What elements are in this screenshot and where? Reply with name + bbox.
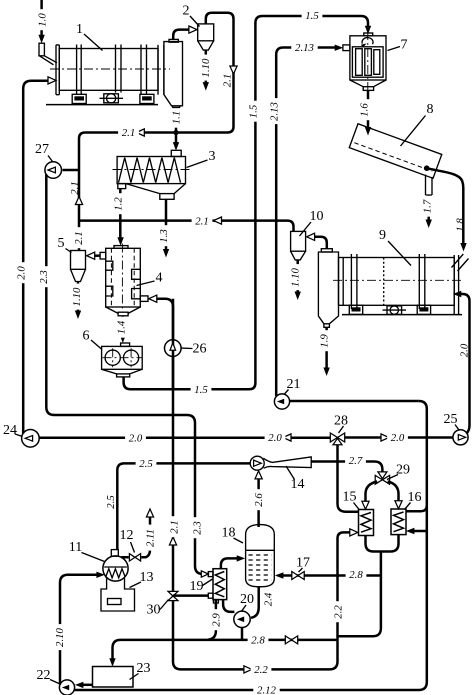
wire 1.10 cyclone 10 outlet xyxy=(288,260,302,300)
wire 1.2 conveyor to apparatus 4 xyxy=(111,189,125,246)
svg-text:1.0: 1.0 xyxy=(36,13,48,27)
svg-text:20: 20 xyxy=(240,592,254,607)
wire 1.6 unit 7 to unit 8 xyxy=(357,90,371,135)
wire tank 23 to pump 22 xyxy=(75,682,93,688)
wire 2.9 unit 19 bottom to header xyxy=(208,600,223,640)
svg-text:2.11: 2.11 xyxy=(145,529,157,547)
svg-text:14: 14 xyxy=(291,477,305,492)
svg-text:2.5: 2.5 xyxy=(139,458,153,470)
svg-text:22: 22 xyxy=(37,668,51,683)
wire HX15 left-side feed from 2.8 riser x=337.5 xyxy=(338,529,358,568)
absorber 11 xyxy=(69,528,135,581)
svg-text:1.4: 1.4 xyxy=(115,320,127,334)
wire right long vertical x=426.8 (2.12 riser) xyxy=(74,401,427,695)
label 28 xyxy=(334,414,348,434)
wire 2.1 vertical x=79 pump27/cyclone5 riser xyxy=(63,133,86,251)
svg-text:1.10: 1.10 xyxy=(200,58,212,77)
svg-text:1.2: 1.2 xyxy=(113,197,125,211)
wire 2.0 header y=437.5 pump24 - valve28 - pump25 xyxy=(39,431,453,445)
svg-text:10: 10 xyxy=(310,209,324,224)
svg-text:15: 15 xyxy=(343,490,357,505)
svg-text:2.4: 2.4 xyxy=(262,592,274,606)
wire pump 21 suction from right vertical xyxy=(290,400,419,403)
valve on 2.8 line xyxy=(285,636,297,644)
svg-text:2.3: 2.3 xyxy=(38,270,50,284)
wire 2.1 from cyclone 2 top down to upper header y=132.5 xyxy=(85,13,237,140)
svg-text:2.1: 2.1 xyxy=(168,520,180,534)
svg-text:27: 27 xyxy=(35,142,49,157)
svg-text:30: 30 xyxy=(147,603,161,618)
svg-text:2.1: 2.1 xyxy=(73,231,85,245)
svg-text:5: 5 xyxy=(58,236,65,251)
heater 13 below absorber 11 xyxy=(101,570,154,611)
wire valve 28 stem and 2.7 line to valve 29 xyxy=(311,444,382,512)
svg-text:1.3: 1.3 xyxy=(158,229,170,243)
svg-text:2.0: 2.0 xyxy=(458,343,470,357)
svg-text:2.3: 2.3 xyxy=(192,521,204,535)
svg-text:24: 24 xyxy=(3,423,17,438)
svg-text:2.8: 2.8 xyxy=(251,635,265,647)
svg-text:2.12: 2.12 xyxy=(257,685,276,695)
wire 1.9 drum 9 hood outlet xyxy=(317,327,331,376)
pump 25 xyxy=(444,412,469,445)
svg-text:1.5: 1.5 xyxy=(194,384,208,396)
wire pump 26 line: 1.5 junction up through pump to apparatus 4 xyxy=(172,299,175,390)
wire apparatus 4 to cyclone 5 xyxy=(87,252,100,259)
pump 26 xyxy=(165,340,207,357)
wire 2.8 valve line y=639.9 from 4-way to x=337.5 xyxy=(173,633,338,647)
svg-text:1.10: 1.10 xyxy=(290,267,302,286)
label 30 xyxy=(147,600,169,618)
apparatus 4 xyxy=(100,244,162,316)
svg-text:1.5: 1.5 xyxy=(248,104,260,118)
pump 21 xyxy=(274,377,300,409)
svg-text:2.1: 2.1 xyxy=(122,127,136,139)
pump 20 xyxy=(234,592,254,628)
wire 2.3: pump 27 discharge down, right at y=415, down central x=195 to unit 19 xyxy=(37,174,209,577)
label 29 xyxy=(387,463,410,480)
svg-text:1.1: 1.1 xyxy=(171,111,183,125)
wire 2.6 vessel 18 to ejector 14 xyxy=(252,471,266,527)
wire HX16 top-right branch y=511.2 xyxy=(406,505,427,511)
svg-text:11: 11 xyxy=(69,540,82,555)
wire 2.4 vessel 18 bottom to pump 20 xyxy=(251,587,274,618)
wire drum 1 hood duct to cyclone 2 xyxy=(173,26,197,39)
svg-text:2.6: 2.6 xyxy=(253,493,265,507)
wire HX bottoms U-merge and stem down xyxy=(338,535,399,637)
wire 2.1 central vertical x=173 from apparatus 4 port down to 2.2 elbow xyxy=(149,295,181,669)
ejector 14 xyxy=(250,456,311,492)
svg-text:2.8: 2.8 xyxy=(349,569,363,581)
svg-text:1.7: 1.7 xyxy=(421,199,433,213)
unit 7 (mixer) xyxy=(343,31,408,91)
unit 6 (roll mill) xyxy=(83,329,143,377)
junction 1.1 x 2.1 xyxy=(173,130,178,135)
svg-text:2.13: 2.13 xyxy=(269,101,281,120)
wire 2.10 pump 22 riser to unit 11 xyxy=(52,572,105,685)
svg-text:2.1: 2.1 xyxy=(222,74,234,88)
wire valve 29 branches to HX15 and HX16 tops xyxy=(362,482,402,510)
svg-text:2.0: 2.0 xyxy=(16,266,28,280)
screw conveyor 3 xyxy=(113,149,216,199)
label 17 xyxy=(296,556,310,573)
wire 1.5 riser and top header into unit 7 xyxy=(246,9,371,383)
wire 1.7 unit 8 spout xyxy=(420,195,434,228)
svg-text:2.0: 2.0 xyxy=(268,432,282,444)
pump 24 xyxy=(3,423,39,447)
wire unit 19 top to vessel 18 xyxy=(221,555,245,569)
wire 2.0 left vertical: drum 1 feed down to pump 24 xyxy=(14,77,56,434)
svg-text:12: 12 xyxy=(120,528,134,543)
svg-text:2.7: 2.7 xyxy=(349,455,363,467)
wire unit 19 bottom to pump 20 xyxy=(223,600,234,612)
valve 28 three-way xyxy=(330,433,344,445)
svg-text:2.0: 2.0 xyxy=(129,433,143,445)
svg-text:2.10: 2.10 xyxy=(54,627,66,646)
svg-text:2.1: 2.1 xyxy=(195,215,209,227)
svg-text:8: 8 xyxy=(427,102,434,117)
cyclone 2 xyxy=(183,4,214,51)
svg-text:3: 3 xyxy=(209,149,216,164)
heat exchanger 15 xyxy=(343,490,374,536)
svg-text:1.9: 1.9 xyxy=(319,334,331,348)
wire 1.10 cyclone 2 dust outlet xyxy=(198,50,212,91)
svg-text:4: 4 xyxy=(156,271,163,286)
wire 2.5 header y=463.4 to ejector 14, branch down to unit 11 xyxy=(105,457,250,550)
drum dryer 1 xyxy=(39,22,170,105)
svg-text:7: 7 xyxy=(401,38,408,53)
vessel 18 xyxy=(222,525,275,587)
wire cyclone 10 inlet duct from drum 9 hood xyxy=(307,233,327,249)
wire 2.0 right: pump 25 riser into drum 9 xyxy=(453,291,471,434)
svg-text:1.5: 1.5 xyxy=(305,10,319,22)
wire pump 20 discharge down xyxy=(241,627,244,640)
unit 8 (inclined dissolver) xyxy=(349,102,441,195)
pump 27 xyxy=(35,142,62,178)
wire 1.4 apparatus 4 to unit 6 xyxy=(114,316,128,343)
drum 1 discharge hood xyxy=(164,39,183,107)
svg-text:29: 29 xyxy=(396,463,410,478)
svg-text:2.13: 2.13 xyxy=(295,42,314,54)
wire 1.3 conveyor discharge xyxy=(156,199,170,257)
svg-text:1.8: 1.8 xyxy=(454,218,466,232)
heat exchanger 19 xyxy=(190,569,227,603)
wire 2.2 line y=669.4 xyxy=(181,663,330,677)
cyclone 10 xyxy=(291,209,324,260)
valve 17 xyxy=(292,572,304,580)
svg-text:2.2: 2.2 xyxy=(254,664,268,676)
wire 2.2 vertical x=337.5 (575.5 junction down to 2.2 elbow) xyxy=(330,568,345,670)
svg-text:2.0: 2.0 xyxy=(391,432,405,444)
wire 1.8 unit 8 tap to drum 9 xyxy=(427,168,467,251)
svg-text:9: 9 xyxy=(379,228,386,243)
wire 1.1 hood outlet to screw 3 xyxy=(169,107,183,151)
svg-text:19: 19 xyxy=(190,579,204,594)
valve 30 xyxy=(168,591,178,600)
pump 22 xyxy=(37,668,75,695)
svg-text:2.1: 2.1 xyxy=(69,181,81,195)
wire 2.13 riser from pump 21 and header into unit 7 xyxy=(267,41,343,397)
svg-text:28: 28 xyxy=(334,414,348,429)
valve 29 three-way xyxy=(375,472,389,484)
svg-text:2.5: 2.5 xyxy=(105,495,117,509)
svg-text:1.6: 1.6 xyxy=(358,103,370,117)
svg-text:26: 26 xyxy=(193,342,207,357)
cyclone 5 xyxy=(58,236,86,319)
svg-text:2: 2 xyxy=(183,4,190,19)
wire 2.11 from valve 12 up xyxy=(121,509,156,557)
heat exchanger 16 xyxy=(391,490,422,535)
svg-text:1.10: 1.10 xyxy=(71,287,83,306)
valve 12 xyxy=(129,554,140,561)
svg-text:2.2: 2.2 xyxy=(333,605,345,619)
wire 2.8/valve17 line y=575.5 into vessel 18 xyxy=(275,568,381,582)
svg-text:6: 6 xyxy=(83,329,90,344)
drum dryer 9 xyxy=(333,228,469,315)
wire branch to tank 23 xyxy=(109,640,173,667)
svg-text:13: 13 xyxy=(140,570,154,585)
drum 9 feed hood xyxy=(318,249,338,328)
svg-text:2.9: 2.9 xyxy=(211,613,223,627)
wire valve 30 branch to unit 19 lower port xyxy=(173,594,208,597)
wire stream 1.0 feed line xyxy=(35,0,49,43)
wire 2.1 lower header y=220.6 from cyclone 10 to x=79 xyxy=(79,214,294,232)
wire HX16 right-side feed y=531 xyxy=(406,528,427,534)
svg-text:1: 1 xyxy=(76,22,83,37)
svg-text:17: 17 xyxy=(296,556,310,571)
tank 23 xyxy=(93,661,151,687)
wire 1.5 horizontal y=389.3 from unit 6 outlet to riser xyxy=(124,377,256,396)
